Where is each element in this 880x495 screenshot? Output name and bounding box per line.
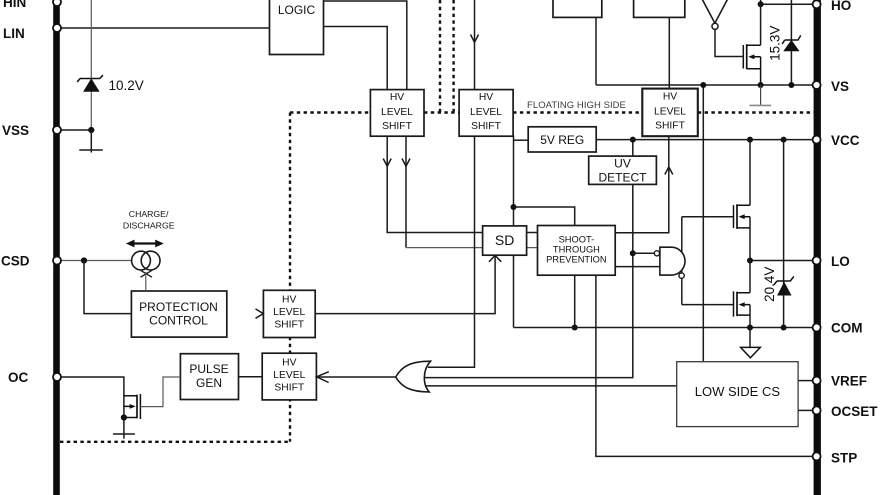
node VS zener dot <box>788 82 794 88</box>
node VSS dot <box>88 127 94 133</box>
block LOW SIDE CS <box>677 362 798 427</box>
wire VREF stub <box>798 380 814 382</box>
svg-text:SHIFT: SHIFT <box>274 320 304 331</box>
arrow down on LS1 left output <box>383 159 391 167</box>
wire HV level shift 2 output down to OR gate <box>429 136 475 367</box>
svg-text:LEVEL: LEVEL <box>470 107 502 118</box>
arrow up into SD bottom <box>489 255 501 261</box>
svg-text:OC: OC <box>8 370 29 385</box>
block PULSE GEN <box>180 354 238 400</box>
svg-text:CSD: CSD <box>1 254 30 269</box>
transistor M3 LO pull-down mosfet <box>734 291 751 316</box>
svg-text:HV: HV <box>663 92 677 103</box>
svg-text:SHIFT: SHIFT <box>382 121 412 132</box>
wire HV level shift 1 output left (to SD) <box>387 136 537 232</box>
wire 20.4V zener line VCC to COM <box>783 140 785 328</box>
dashed floating-high-side boundary top horizontal <box>290 111 814 113</box>
block HV LEVEL SHIFT 5 (pulse) <box>262 353 316 400</box>
wire top box B down to HV level shift 3 <box>668 17 670 88</box>
svg-text:10.2V: 10.2V <box>109 78 144 93</box>
block PROTECTION CONTROL <box>131 291 226 337</box>
pin HIN <box>3 0 61 10</box>
svg-text:LOGIC: LOGIC <box>278 3 316 17</box>
arrow down on LS1 right output <box>402 159 410 167</box>
dashed boundary bottom horizontal <box>60 441 291 443</box>
wire LOGIC out top to HV level shift 1 <box>324 1 407 90</box>
svg-text:LIN: LIN <box>3 26 25 41</box>
svg-text:GEN: GEN <box>196 376 222 390</box>
wire OR gate input 2 to low side CS <box>424 385 677 387</box>
svg-text:DETECT: DETECT <box>599 170 648 184</box>
node COM shoot dot <box>572 325 578 331</box>
transistor M1 high side output mosfet <box>743 44 760 85</box>
arrow into HV LS4 <box>256 309 264 318</box>
pin VSS <box>2 123 61 138</box>
wire shoot-through out to high side riser <box>615 136 669 233</box>
wire OCSET stub <box>798 409 814 411</box>
svg-text:LO: LO <box>831 254 850 269</box>
node OC mosfet source dot <box>121 414 127 420</box>
wire upper LO gate drive <box>682 216 734 218</box>
dashed vertical stub B (top, cut off) <box>452 0 454 113</box>
svg-text:VSS: VSS <box>2 123 29 138</box>
wire OR gate to HV LS5 with arrow <box>317 372 396 383</box>
dashed vertical stub A (top, cut off) <box>439 0 441 113</box>
svg-text:COM: COM <box>831 321 863 336</box>
arrow down on LS2 input <box>471 35 479 43</box>
IC boundary bar right <box>814 0 821 495</box>
svg-text:SHIFT: SHIFT <box>471 121 501 132</box>
ground arrow above low side CS <box>741 347 761 357</box>
wire LO mosfet source to LO rail <box>749 217 751 261</box>
svg-text:PROTECTION: PROTECTION <box>139 300 218 314</box>
pin COM <box>813 321 863 336</box>
block SHOOT-THROUGH PREVENTION <box>538 226 616 276</box>
wire inverter to HO mosfet gate <box>715 30 743 57</box>
svg-text:LEVEL: LEVEL <box>654 107 686 118</box>
svg-text:VCC: VCC <box>831 133 860 148</box>
block top box B (cut off) <box>634 0 685 17</box>
svg-text:CONTROL: CONTROL <box>149 314 208 328</box>
wire CSD to current source <box>60 260 132 262</box>
svg-text:THROUGH: THROUGH <box>553 245 600 255</box>
wire branch to 5V REG <box>514 139 529 141</box>
wire 15.3V zener line <box>790 0 792 85</box>
transistor M4 OC sense mosfet (mirrored) <box>124 394 140 419</box>
block top box A (cut off) <box>553 0 602 17</box>
node NAND input branch dot <box>630 250 636 256</box>
svg-text:CHARGE/: CHARGE/ <box>129 209 169 219</box>
wire OC to mosfet <box>60 377 124 434</box>
block HV LEVEL SHIFT 1 <box>370 90 424 137</box>
current source I1 charge/discharge <box>132 251 160 277</box>
svg-text:LEVEL: LEVEL <box>273 370 305 381</box>
block LOGIC (cut off at top) <box>270 0 324 55</box>
floating ground at VS <box>749 85 771 105</box>
wire top box A down to VS rail <box>595 17 597 85</box>
wire CSD down to protection control <box>84 261 131 314</box>
svg-text:OCSET: OCSET <box>831 404 878 419</box>
svg-text:VS: VS <box>831 79 849 94</box>
wire upper LO mosfet drain to VCC <box>749 140 751 206</box>
wire SD ground down to COM rail <box>513 255 515 328</box>
svg-text:SHOOT-: SHOOT- <box>559 235 595 245</box>
dashed boundary left vertical <box>289 113 291 442</box>
svg-text:UV: UV <box>614 156 631 170</box>
gate U2 NAND (AND with bubbles) <box>654 247 685 278</box>
pin LIN <box>3 24 61 41</box>
node VS mosfet dot <box>758 82 764 88</box>
block 5V REG <box>528 127 596 152</box>
wire COM down to ground arrow <box>749 328 751 348</box>
svg-text:LEVEL: LEVEL <box>381 107 413 118</box>
svg-text:VREF: VREF <box>831 374 867 389</box>
wire 5V branch to shoot-through top <box>514 207 575 226</box>
zener D2 20.4V symbol <box>774 276 794 295</box>
wire protection control HV LS output to SD bottom <box>316 255 496 313</box>
arrow charge/discharge double-headed <box>126 240 164 248</box>
node LO dot <box>747 258 753 264</box>
svg-text:DISCHARGE: DISCHARGE <box>123 221 175 231</box>
wire OC mosfet gate to pulse gen <box>140 377 180 407</box>
svg-text:LOW SIDE CS: LOW SIDE CS <box>695 384 781 399</box>
wire current source to protection control top <box>145 272 147 291</box>
svg-text:HV: HV <box>390 92 404 103</box>
zener D1 15.3V symbol <box>782 35 801 50</box>
IC boundary bar left <box>53 0 60 495</box>
pin OCSET <box>813 404 879 419</box>
svg-text:20.4V: 20.4V <box>762 267 777 302</box>
node COM zener dot <box>781 325 787 331</box>
wire UV/VCC vertical down to OR gate input 1 <box>424 140 633 378</box>
svg-text:HV: HV <box>479 92 493 103</box>
svg-text:HV: HV <box>282 358 296 369</box>
svg-text:HIN: HIN <box>3 0 26 10</box>
svg-text:HO: HO <box>831 0 851 13</box>
node VCC drain dot <box>747 137 753 143</box>
wire lower LO gate drive <box>682 304 734 306</box>
svg-text:5V REG: 5V REG <box>540 133 584 147</box>
wire LIN to LOGIC <box>60 27 270 29</box>
svg-text:SHIFT: SHIFT <box>655 120 685 131</box>
wire top input into HV level shift 2 <box>474 0 476 90</box>
pin VCC <box>813 133 860 148</box>
wire LOGIC out 2 to HV level shift 1 <box>324 27 388 90</box>
block HV LEVEL SHIFT 2 <box>459 90 513 137</box>
svg-text:PREVENTION: PREVENTION <box>546 255 606 265</box>
block UV DETECT <box>589 156 657 184</box>
wire lower LO mosfet drain to LO <box>749 261 751 293</box>
svg-text:15.3V: 15.3V <box>768 26 783 61</box>
wire LO rail <box>750 260 814 262</box>
wire HV level shift 1 output right (to SD) <box>406 136 538 247</box>
zener D3 10.2V symbol <box>77 75 103 91</box>
svg-text:FLOATING HIGH SIDE: FLOATING HIGH SIDE <box>527 100 626 111</box>
transistor M2 LO pull-up mosfet <box>734 204 751 229</box>
pin HO <box>813 0 852 13</box>
pin CSD <box>1 254 61 269</box>
block HV LEVEL SHIFT 4 (protection) <box>263 290 315 337</box>
label 15.3V <box>768 26 783 61</box>
wire NAND upper input <box>633 252 654 254</box>
node VCC UV dot <box>630 137 636 143</box>
svg-text:HV: HV <box>282 295 296 306</box>
label FLOATING HIGH SIDE <box>527 100 626 111</box>
wire VS sense down to low side CS <box>702 85 704 362</box>
wire COM rail <box>514 327 814 329</box>
label 20.4V <box>762 267 777 302</box>
block HV LEVEL SHIFT 3 (high side) <box>642 89 698 137</box>
node VCC zener dot <box>781 137 787 143</box>
wire shoot-through bottom to COM rail <box>574 275 576 327</box>
node 5V branch dot <box>511 204 517 210</box>
svg-text:LEVEL: LEVEL <box>273 307 305 318</box>
svg-text:PULSE: PULSE <box>189 362 228 376</box>
node HO dot <box>758 1 764 7</box>
pin LO <box>813 254 850 269</box>
block SD <box>483 226 527 255</box>
pin VS <box>813 79 849 94</box>
wire 5V net from LS2 corner down to SD top <box>513 136 515 226</box>
wire VS rail <box>596 84 814 86</box>
node CSD dot <box>81 257 87 263</box>
label 10.2V <box>109 78 144 93</box>
gate U3 OR (pointing left) <box>396 361 431 392</box>
wire NAND output net vertical <box>681 217 683 305</box>
arrow up on high side riser <box>665 167 673 175</box>
label CHARGE/DISCHARGE <box>123 209 175 231</box>
wire STP from shoot-through bottom <box>596 275 814 456</box>
wire OR top input <box>428 366 475 368</box>
svg-text:SHIFT: SHIFT <box>274 383 304 394</box>
wire PULSE GEN to HV LS5 <box>239 376 263 378</box>
wire VSS to zener node <box>60 129 91 131</box>
wire HO rail <box>761 0 814 4</box>
node COM mosfet dot <box>747 325 753 331</box>
wire HO mosfet drain drop <box>760 4 762 45</box>
wire lower LO mosfet source to COM <box>749 305 751 328</box>
wire shoot-through out to NAND lower input <box>615 266 660 268</box>
wire zener 10.2V line from top <box>90 0 92 130</box>
pin VREF <box>813 374 867 389</box>
svg-text:STP: STP <box>831 450 857 465</box>
ground at OC mosfet <box>113 434 135 439</box>
pin OC <box>8 370 61 385</box>
wire VCC rail <box>596 139 813 141</box>
node VS sense dot <box>700 82 706 88</box>
ground at VSS <box>79 130 103 153</box>
inverter U1 (high side driver, cut off) <box>701 0 729 29</box>
pin STP <box>813 450 858 465</box>
svg-text:SD: SD <box>495 232 514 248</box>
